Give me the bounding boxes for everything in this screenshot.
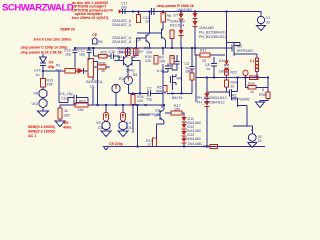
ground V5 <box>101 131 111 137</box>
diode D9 <box>182 129 187 136</box>
resistor R7 right <box>134 49 138 56</box>
svg-text:L3: L3 <box>127 121 131 125</box>
wire C7 left <box>128 93 145 95</box>
resistor R22 <box>99 54 108 58</box>
voltage source V8 <box>39 89 47 99</box>
svg-text:R11: R11 <box>200 49 206 53</box>
voltage source V10 <box>39 99 47 109</box>
capacitor C20 20p <box>119 9 152 14</box>
svg-text:C10: C10 <box>61 97 68 101</box>
wire bypass left <box>59 71 68 103</box>
svg-text:R21: R21 <box>203 145 210 149</box>
svg-text:V5: V5 <box>96 121 100 125</box>
svg-text:R18: R18 <box>79 100 86 104</box>
svg-text:.TEMP 20: .TEMP 20 <box>59 28 75 32</box>
voltage source V1 <box>255 12 265 26</box>
svg-text:10: 10 <box>250 90 254 94</box>
wire Q2 base <box>139 61 141 94</box>
wire diff top feeds <box>128 57 136 60</box>
capacitor C15 <box>107 54 119 60</box>
svg-text:544U: 544U <box>126 69 135 73</box>
svg-text:M4: M4 <box>177 77 182 81</box>
svg-text:100: 100 <box>137 99 143 103</box>
junction bottom <box>137 145 139 147</box>
svg-text:C9 220p: C9 220p <box>109 142 124 146</box>
capacitor C3 <box>190 48 195 73</box>
svg-text:AC 1: AC 1 <box>28 134 36 138</box>
svg-text:2SA1837_A: 2SA1837_A <box>112 23 132 27</box>
junction dots y77.6 <box>206 77 208 79</box>
wire x196 vert <box>195 48 196 102</box>
diode D8 <box>224 68 229 73</box>
svg-text:Q1: Q1 <box>118 55 123 59</box>
svg-text:1N4148C: 1N4148C <box>199 26 215 30</box>
capacitor C10 <box>74 97 88 105</box>
svg-text:SINE(0 3 19000): SINE(0 3 19000) <box>28 130 56 134</box>
svg-text:.four 20kHz 20 v(OUT): .four 20kHz 20 v(OUT) <box>71 16 109 20</box>
net flag box <box>93 38 98 44</box>
resistor R9 <box>170 56 174 65</box>
capacitor C12 <box>87 48 92 60</box>
ground V3 <box>118 131 128 137</box>
svg-text:R1: R1 <box>56 64 61 68</box>
diode D5 <box>182 122 187 129</box>
resistor R18 <box>75 103 164 107</box>
wire q3 emitter to R12 <box>157 124 165 138</box>
wire x163 vert to VAS <box>162 64 168 108</box>
resistor R8 top <box>137 12 141 23</box>
svg-text:33: 33 <box>266 21 270 25</box>
resistor R4 left <box>126 49 130 56</box>
svg-text:330: 330 <box>64 114 70 118</box>
diode D1 <box>182 117 187 122</box>
resistor R13 <box>41 79 46 90</box>
svg-text:V8: V8 <box>34 92 38 96</box>
svg-text:15K: 15K <box>47 83 54 87</box>
wire x226 vertical <box>226 12 228 62</box>
svg-text:V1: V1 <box>266 16 270 20</box>
svg-text:D8: D8 <box>219 70 224 74</box>
resistor R34 <box>131 94 135 134</box>
wire bottom rail <box>106 145 265 147</box>
wire q3 base <box>133 105 150 116</box>
resistor R22 <box>224 70 228 81</box>
svg-text:V10: V10 <box>32 102 38 106</box>
resistor R16 330 <box>58 105 62 121</box>
svg-text:40Hz: 40Hz <box>63 126 72 130</box>
zener D17 <box>205 78 210 99</box>
diode input arrow <box>78 68 89 74</box>
svg-text:PH_BZX0004-B12: PH_BZX0004-B12 <box>197 96 227 100</box>
svg-text:C15: C15 <box>109 50 116 54</box>
inductor L1 <box>256 54 259 78</box>
node IN flag <box>40 54 47 64</box>
wire x181.5 vertical <box>181 48 183 94</box>
svg-text:C14: C14 <box>34 69 41 73</box>
svg-text:.step param R 1k 2.5k 5k: .step param R 1k 2.5k 5k <box>20 51 62 55</box>
resistor R6 1k <box>161 12 165 29</box>
svg-text:PH_BZX384-B12: PH_BZX384-B12 <box>199 31 227 35</box>
svg-text:PH_BZX384-B12: PH_BZX384-B12 <box>197 101 225 105</box>
diode D13 <box>182 136 187 146</box>
svg-text:Q5: Q5 <box>136 38 141 42</box>
svg-text:20p: 20p <box>121 6 127 10</box>
capacitor C6 15p <box>68 95 88 100</box>
svg-text:S44UECA: S44UECA <box>86 80 103 84</box>
svg-text:.step param C 100p 1n 200p: .step param C 100p 1n 200p <box>20 46 68 50</box>
svg-text:100: 100 <box>174 107 180 111</box>
transistor Q6 <box>137 29 166 48</box>
svg-text:R7: R7 <box>139 50 144 54</box>
wire mid rail y48 <box>74 48 227 56</box>
resistor R26 <box>94 65 111 69</box>
ground load <box>256 102 265 108</box>
svg-text:C6_15p: C6_15p <box>60 92 73 96</box>
svg-text:D4: D4 <box>219 59 224 63</box>
svg-text:D7: D7 <box>174 14 179 18</box>
svg-text:.tran 0 1ms 1ms 100ns: .tran 0 1ms 1ms 100ns <box>33 38 71 42</box>
wire input to 2k2 <box>43 70 65 72</box>
svg-text:75p: 75p <box>146 98 152 102</box>
wire to R18 <box>60 104 75 106</box>
resistor R18b <box>190 73 194 94</box>
capacitor C1 <box>175 55 180 70</box>
svg-text:R3: R3 <box>119 77 124 81</box>
capacitor C2 <box>165 64 171 73</box>
junction dots y48 <box>74 47 76 49</box>
current source I1 <box>112 84 120 105</box>
zener D16 <box>193 21 198 48</box>
svg-text:1k: 1k <box>101 69 105 73</box>
transistor Q1 <box>115 48 128 67</box>
capacitor C14 <box>40 63 46 78</box>
wire left riser <box>137 105 139 147</box>
zener D18 <box>205 99 210 147</box>
junction C20 <box>132 11 134 13</box>
wire M2 source route <box>233 98 252 126</box>
svg-text:IRFP9240C: IRFP9240C <box>232 98 251 102</box>
svg-text:SINE(0 3 20000): SINE(0 3 20000) <box>28 125 56 129</box>
svg-text:L1: L1 <box>250 59 254 63</box>
wire U1 right riser <box>93 62 98 105</box>
transistor Q5 2SA1837 <box>137 12 150 49</box>
svg-text:100: 100 <box>146 51 152 55</box>
svg-text:18K: 18K <box>185 70 192 74</box>
resistor R21 <box>210 145 218 149</box>
junction pair tops <box>105 104 107 106</box>
voltage source V2 <box>249 126 257 143</box>
svg-text:1u: 1u <box>36 73 40 77</box>
svg-text:B4: B4 <box>133 73 137 77</box>
resistor R10 <box>170 30 174 48</box>
svg-text:PA: PA <box>98 40 103 44</box>
mosfet M4 <box>171 74 177 90</box>
resistor R20 <box>224 80 228 92</box>
junction rail <box>149 11 151 13</box>
diode D4 <box>224 61 229 66</box>
zener D15 <box>193 12 198 22</box>
resistor R11 <box>200 53 210 57</box>
mosfet M3 <box>227 43 258 57</box>
svg-text:1N4148C: 1N4148C <box>188 142 204 146</box>
svg-text:1k: 1k <box>64 109 68 113</box>
op-amp U1 <box>88 59 94 78</box>
resistor R5 56K <box>156 86 192 94</box>
mosfet M2 <box>227 78 238 107</box>
capacitor C13 <box>73 48 78 68</box>
wire mid right row y55 <box>196 54 225 56</box>
svg-text:C4: C4 <box>49 61 54 65</box>
svg-text:1u: 1u <box>145 20 149 24</box>
svg-text:1N4148C: 1N4148C <box>186 137 202 141</box>
resistor R29 <box>246 78 269 90</box>
svg-text:C1: C1 <box>171 56 176 60</box>
svg-text:15K: 15K <box>78 108 85 112</box>
svg-text:D3: D3 <box>98 126 103 130</box>
svg-text:D4: D4 <box>127 126 132 130</box>
svg-text:.op: .op <box>92 33 98 37</box>
svg-text:U1: U1 <box>90 85 95 89</box>
svg-text:8: 8 <box>262 88 264 92</box>
svg-text:2k2: 2k2 <box>56 69 62 73</box>
svg-text:10K: 10K <box>159 60 166 64</box>
current source pair V3 <box>119 105 127 131</box>
svg-text:R35: R35 <box>259 93 266 97</box>
emitter join + tail source <box>127 67 129 77</box>
svg-text:R29: R29 <box>248 82 255 86</box>
svg-text:R22: R22 <box>231 71 238 75</box>
svg-text:1k: 1k <box>231 85 235 89</box>
svg-text:B6176: B6176 <box>172 96 182 100</box>
svg-text:10p: 10p <box>79 53 85 57</box>
svg-text:R2B: R2B <box>99 62 107 66</box>
svg-text:SCHWARZWALD: SCHWARZWALD <box>2 3 74 14</box>
capacitor C11 <box>152 8 159 15</box>
svg-text:1N4148C: 1N4148C <box>117 51 133 55</box>
wire x172 down <box>172 64 177 70</box>
resistor R1 2k2 <box>65 69 78 73</box>
diode D14 <box>179 22 184 48</box>
svg-text:C7: C7 <box>147 87 152 91</box>
wire gate rail lower <box>207 91 227 93</box>
ground C9 arrow <box>104 147 109 151</box>
wire rail top <box>120 11 255 13</box>
resistor R17 <box>165 111 184 117</box>
ground V2 <box>248 143 257 148</box>
current arrow V2 <box>251 129 253 134</box>
svg-text:56K: 56K <box>156 90 163 94</box>
ground V1 <box>257 26 266 31</box>
svg-text:1u: 1u <box>206 67 210 71</box>
svg-text:R10 D14: R10 D14 <box>170 23 184 27</box>
junction mid <box>92 47 94 49</box>
svg-text:E5: E5 <box>64 121 68 125</box>
wire output row <box>196 77 268 79</box>
svg-text:R22: R22 <box>101 51 108 55</box>
transistor Q3 <box>155 105 164 124</box>
resistor R30 <box>154 56 158 65</box>
fuse F1 <box>243 70 248 77</box>
svg-text:2SA1837_A: 2SA1837_A <box>112 40 132 44</box>
svg-text:220: 220 <box>145 59 151 63</box>
svg-text:20p: 20p <box>48 65 55 69</box>
wire R22 row <box>94 56 120 60</box>
junction dots y104.8 <box>97 104 99 106</box>
capacitor C7 <box>145 91 156 97</box>
diode D7 <box>179 12 184 23</box>
resistor R19 <box>250 76 259 80</box>
resistor R35 load <box>260 78 270 102</box>
voltage source V7 tail <box>124 76 132 93</box>
svg-text:33: 33 <box>258 139 262 143</box>
transistor Q2 <box>128 48 140 67</box>
wire Q6 emitter down <box>162 48 164 55</box>
capacitor C8 <box>211 57 217 78</box>
current source pair V5 <box>102 105 110 131</box>
svg-text:10p: 10p <box>65 53 71 57</box>
ground R16 <box>55 121 65 127</box>
svg-text:PH_BZX384-B12: PH_BZX384-B12 <box>199 35 227 39</box>
svg-text:M3: M3 <box>237 45 242 49</box>
svg-text:IRFP240C: IRFP240C <box>237 49 254 53</box>
resistor R12 <box>152 138 156 146</box>
ground input <box>38 109 49 117</box>
